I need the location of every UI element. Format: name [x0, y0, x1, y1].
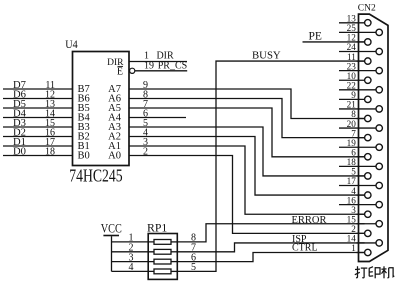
- printer label char 机: [381, 266, 394, 278]
- inverting bubble on U4 pin 19 (E): [130, 68, 135, 73]
- CN2 pin 12 circle: [365, 39, 371, 45]
- wire CN2 pin 16 stub: [339, 204, 376, 206]
- svg-text:18: 18: [347, 157, 357, 167]
- wire RP1 element 1 to right pin: [171, 241, 177, 243]
- wire CN2 pin 25 stub: [339, 31, 376, 33]
- wire CN2 pin 17 stub: [339, 185, 376, 187]
- svg-text:BUSY: BUSY: [252, 50, 281, 62]
- CN2 pin 20 circle: [376, 125, 382, 131]
- svg-text:1: 1: [351, 243, 356, 253]
- wire D3 to U4 pin B3: [3, 126, 73, 128]
- wire CN2 pin 7 stub: [357, 137, 365, 139]
- svg-text:25: 25: [347, 23, 357, 33]
- svg-text:19: 19: [144, 60, 154, 71]
- svg-text:13: 13: [347, 14, 357, 24]
- wire CN2 pin 8 stub: [357, 118, 365, 120]
- wire D6 to U4 pin B6: [3, 98, 73, 100]
- svg-text:11: 11: [347, 52, 356, 62]
- wire CN2 pin 10 stub: [339, 79, 365, 81]
- svg-text:19: 19: [347, 138, 357, 148]
- wire CN2 pin 15 stub: [357, 223, 377, 225]
- wire U4 A1 to CN2 pin 3: [129, 146, 365, 214]
- svg-text:5: 5: [351, 167, 356, 177]
- wire D0 to U4 pin B0: [3, 155, 73, 157]
- CN2 pin 11 circle: [365, 58, 371, 64]
- svg-text:24: 24: [347, 42, 357, 52]
- svg-text:74HC245: 74HC245: [69, 166, 122, 186]
- printer label char 打: [355, 266, 368, 278]
- wire BUSY from CN2 pin 11 to RP1 pin 5: [177, 61, 364, 271]
- svg-text:21: 21: [347, 100, 357, 110]
- wire CN2 pin 1 stub: [357, 251, 365, 253]
- wire CN2 pin 5 stub: [357, 175, 365, 177]
- svg-text:9: 9: [351, 90, 356, 100]
- CN2 pin 13 circle: [365, 20, 371, 26]
- CN2 pin 17 circle: [376, 182, 382, 188]
- wire CN2 pin 24 stub: [339, 51, 376, 53]
- VCC power symbol bar: [103, 235, 119, 237]
- CN2 pin 3 circle: [365, 211, 371, 217]
- svg-text:PR_CS: PR_CS: [158, 60, 187, 71]
- wire CN2 pin 2 stub: [357, 232, 365, 234]
- svg-text:U4: U4: [65, 37, 77, 51]
- CN2 pin 10 circle: [365, 77, 371, 83]
- svg-text:3: 3: [351, 205, 356, 215]
- CN2 pin 22 circle: [376, 87, 382, 93]
- wire PR_CS net stub from U4 pin 19 bubble: [135, 70, 187, 72]
- wire CTRL from RP1 pin 6 to CN2 pin 1: [177, 252, 364, 261]
- CN2 pin 24 circle: [376, 48, 382, 54]
- wire RP1 element 4 to right pin: [171, 270, 177, 272]
- resistor RP1 element 2: [154, 249, 171, 254]
- CN2 pin 5 circle: [365, 173, 371, 179]
- svg-text:E: E: [117, 67, 123, 78]
- CN2 pin 1 circle: [365, 249, 371, 255]
- CN2 pin 9 circle: [365, 96, 371, 102]
- svg-text:22: 22: [347, 80, 357, 90]
- CN2 pin 2 circle: [365, 230, 371, 236]
- wire ISP from RP1 pin 7 to CN2 pin 14: [177, 243, 364, 252]
- svg-text:20: 20: [347, 119, 357, 129]
- CN2 pin 23 circle: [376, 67, 382, 73]
- wire VCC bus to RP1 pin 4: [112, 270, 155, 272]
- svg-text:CN2: CN2: [358, 3, 376, 13]
- svg-text:4: 4: [129, 262, 134, 273]
- wire VCC bus to RP1 pin 2: [112, 251, 155, 253]
- underline under R of DIR: [118, 65, 124, 67]
- wire D5 to U4 pin B5: [3, 107, 73, 109]
- wire CN2 pin 14 stub: [357, 242, 377, 244]
- wire CN2 pin 3 stub: [357, 213, 365, 215]
- CN2 pin 6 circle: [365, 154, 371, 160]
- svg-text:18: 18: [45, 146, 55, 157]
- CN2 pin 21 circle: [376, 106, 382, 112]
- svg-text:D0: D0: [13, 146, 26, 157]
- wire U4 A6 to CN2 pin 7: [129, 99, 365, 138]
- wire CN2 pin 22 stub: [339, 89, 376, 91]
- CN2 pin 15 circle: [376, 221, 382, 227]
- wire D1 to U4 pin B1: [3, 145, 73, 147]
- wire U4 A7 to CN2 pin 8: [129, 89, 365, 119]
- wire CN2 pin 11 stub: [357, 60, 365, 62]
- CN2 pin 8 circle: [365, 115, 371, 121]
- wire CN2 pin 19 stub: [339, 146, 376, 148]
- resistor RP1 element 1: [154, 240, 171, 245]
- wire DIR net stub from U4 pin 1: [129, 61, 187, 63]
- wire D4 to U4 pin B4: [3, 117, 73, 119]
- svg-text:VCC: VCC: [101, 221, 122, 235]
- resistor RP1 element 4: [154, 269, 171, 274]
- svg-text:14: 14: [347, 234, 357, 244]
- wire CN2 pin 6 stub: [357, 156, 365, 158]
- svg-text:23: 23: [347, 61, 357, 71]
- op-amp-style IC body U4 74HC245: [73, 52, 130, 166]
- wire VCC bus to RP1 pin 3: [112, 261, 155, 263]
- wire U4 A3 to CN2 pin 5: [129, 127, 365, 176]
- wire PE stub to CN2 pin 12: [303, 41, 365, 43]
- wire VCC bus to RP1 pin 1: [112, 241, 155, 243]
- printer label char 印: [369, 267, 380, 279]
- wire RP1 element 2 to right pin: [171, 251, 177, 253]
- wire U4 A0 to CN2 pin 2: [129, 156, 365, 234]
- svg-text:RP1: RP1: [147, 221, 167, 235]
- wire U4 A5 to CN2 pin 6: [129, 108, 365, 157]
- wire ERROR from RP1 pin 8 to CN2 pin 15: [177, 224, 364, 242]
- wire U4 A2 to CN2 pin 4: [129, 137, 365, 196]
- svg-text:6: 6: [351, 147, 356, 157]
- svg-text:7: 7: [351, 128, 356, 138]
- wire CN2 pin 9 stub: [339, 98, 365, 100]
- resistor RP1 element 3: [154, 259, 171, 264]
- CN2 pin 4 circle: [365, 192, 371, 198]
- wire CN2 pin 20 stub: [339, 127, 376, 129]
- CN2 pin 14 circle: [376, 240, 382, 246]
- wire CN2 pin 23 stub: [339, 70, 376, 72]
- svg-text:5: 5: [191, 262, 196, 273]
- wire CN2 pin 12 stub: [357, 41, 365, 43]
- wire U4 A4 stub (unconnected): [129, 117, 186, 119]
- wire VCC bus vertical: [111, 236, 113, 271]
- svg-text:8: 8: [351, 109, 356, 119]
- connector CN2 DB25 body: [359, 14, 389, 261]
- svg-text:16: 16: [347, 195, 357, 205]
- svg-text:12: 12: [347, 33, 357, 43]
- CN2 pin 16 circle: [376, 201, 382, 207]
- svg-text:17: 17: [347, 176, 357, 186]
- svg-text:2: 2: [351, 224, 356, 234]
- svg-text:4: 4: [351, 186, 356, 196]
- CN2 pin 19 circle: [376, 144, 382, 150]
- wire CN2 pin 4 stub: [357, 194, 365, 196]
- svg-text:CTRL: CTRL: [292, 242, 318, 253]
- svg-text:A0: A0: [108, 151, 121, 162]
- svg-text:10: 10: [347, 71, 357, 81]
- svg-text:ERROR: ERROR: [292, 215, 327, 226]
- wire CN2 pin 18 stub: [339, 165, 376, 167]
- wire D2 to U4 pin B2: [3, 136, 73, 138]
- resistor pack RP1 body: [148, 234, 177, 280]
- svg-text:PE: PE: [309, 31, 322, 43]
- svg-text:B0: B0: [78, 151, 90, 162]
- CN2 pin 7 circle: [365, 134, 371, 140]
- svg-text:15: 15: [347, 214, 357, 224]
- wire CN2 pin 13 stub: [339, 22, 365, 24]
- wire CN2 pin 21 stub: [339, 108, 376, 110]
- wire D7 to U4 pin B7: [3, 88, 73, 90]
- CN2 pin 18 circle: [376, 163, 382, 169]
- wire RP1 element 3 to right pin: [171, 261, 177, 263]
- CN2 pin 25 circle: [376, 29, 382, 35]
